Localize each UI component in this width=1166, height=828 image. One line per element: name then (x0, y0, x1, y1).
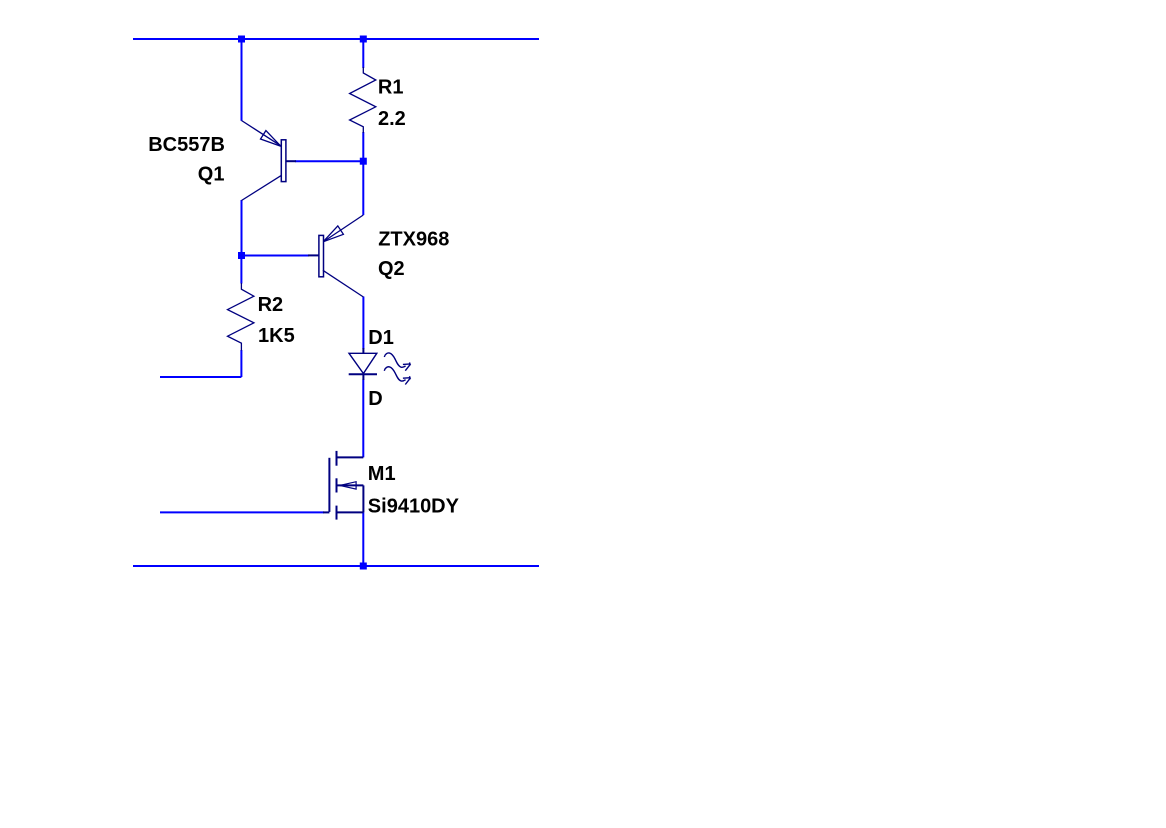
wire R2 bottom vertical (240, 350, 242, 377)
svg-text:D: D (368, 388, 382, 410)
junction top rail right (360, 36, 367, 43)
wire rail to R1 (362, 38, 364, 68)
resistor R2 (228, 283, 254, 351)
LED D1 (349, 348, 377, 380)
junction top rail left (238, 36, 245, 43)
svg-text:2.2: 2.2 (378, 108, 406, 130)
svg-text:R1: R1 (378, 76, 404, 98)
svg-text:BC557B: BC557B (148, 134, 225, 156)
junction node A (360, 158, 367, 165)
resistor R1 (350, 67, 376, 133)
wire M1 gate stub (160, 511, 324, 513)
junction ground rail (360, 563, 367, 570)
svg-text:R2: R2 (258, 294, 284, 316)
LED D1 light arrow upper (384, 353, 410, 371)
wire top power rail (133, 38, 539, 40)
svg-text:Si9410DY: Si9410DY (368, 495, 460, 517)
transistor Q2 ZTX968 PNP (308, 215, 363, 297)
wire node B to Q2 base (242, 255, 310, 257)
junction node B (238, 252, 245, 259)
svg-text:1K5: 1K5 (258, 325, 295, 347)
svg-text:D1: D1 (368, 327, 394, 349)
wire M1 source to ground rail (362, 512, 364, 566)
wire D1 cathode to M1 drain (362, 380, 364, 458)
wire node B to R2 top (240, 256, 242, 284)
wire R1 to node A (362, 132, 364, 161)
wire rail to Q1 emitter (241, 38, 243, 121)
svg-text:ZTX968: ZTX968 (378, 228, 449, 250)
MOSFET M1 Si9410DY (323, 451, 363, 520)
wire R2 bottom horizontal stub (160, 376, 241, 378)
svg-text:M1: M1 (368, 463, 396, 485)
transistor Q1 BC557B PNP (242, 121, 297, 201)
wire Q1 base to node A (295, 160, 363, 162)
svg-text:Q2: Q2 (378, 258, 405, 280)
wire Q1 collector to node B (241, 200, 243, 256)
wire bottom ground rail (133, 565, 539, 567)
svg-text:Q1: Q1 (198, 164, 225, 186)
wire node A to Q2 emitter (362, 161, 364, 215)
LED D1 light arrow lower (384, 367, 410, 385)
wire Q2 collector to D1 anode (362, 297, 364, 350)
